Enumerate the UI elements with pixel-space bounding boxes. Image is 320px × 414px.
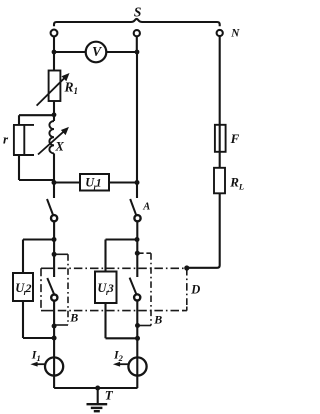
svg-text:B: B	[153, 313, 162, 327]
svg-text:R1: R1	[64, 79, 79, 96]
svg-text:RL: RL	[229, 174, 244, 191]
svg-text:Ur1: Ur1	[85, 175, 101, 191]
svg-text:I2: I2	[113, 348, 124, 363]
svg-text:T: T	[105, 388, 114, 403]
svg-text:I1: I1	[31, 348, 41, 363]
svg-text:A: A	[142, 201, 150, 212]
svg-text:X: X	[55, 140, 65, 154]
svg-text:B: B	[69, 311, 78, 325]
svg-text:Ur2: Ur2	[15, 281, 31, 297]
svg-text:S: S	[134, 4, 142, 19]
svg-text:r: r	[3, 132, 9, 147]
svg-text:Ur3: Ur3	[97, 281, 113, 297]
svg-text:F: F	[230, 131, 240, 146]
svg-text:N: N	[230, 28, 240, 40]
svg-text:D: D	[190, 283, 200, 297]
svg-text:V: V	[92, 44, 102, 59]
